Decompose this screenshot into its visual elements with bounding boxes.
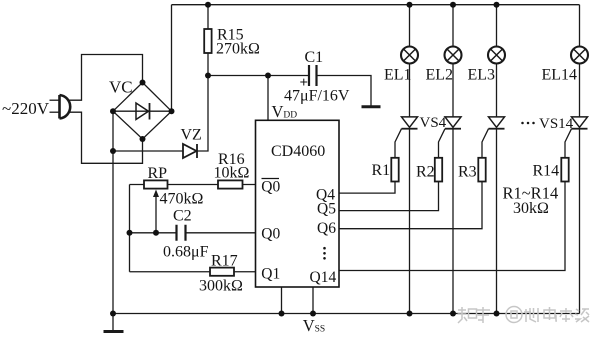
bridge inner diode [136,103,149,120]
svg-text:R2: R2 [416,164,435,181]
junction branch 1 on bottom rail [407,311,413,317]
wire lamp branch 1 [409,5,411,314]
potentiometer RP wiper arrow [155,194,157,233]
thyristor VS14 [565,117,588,158]
svg-text:EL2: EL2 [426,67,454,84]
junction R15 top on rail [205,2,211,8]
wire plug prong lower [50,111,59,113]
svg-text:EL1: EL1 [384,67,412,84]
svg-text:Q0: Q0 [261,226,280,243]
svg-text:0.68μF: 0.68μF [163,244,209,261]
svg-text:C2: C2 [173,208,192,225]
resistor R3 [478,158,485,182]
junction bridge bottom corner [140,136,146,142]
capacitor C2 [177,225,186,241]
wire RC network vertical [129,185,131,272]
svg-text:EL14: EL14 [542,67,578,84]
lamp EL2 [445,47,462,64]
svg-text:Q14: Q14 [310,269,337,286]
resistor R2 [435,158,442,182]
resistor R17 [210,268,234,276]
junction R15 bottom node [205,73,211,79]
svg-text:10kΩ: 10kΩ [214,165,250,182]
ground of C1 [362,105,381,108]
wire Q0 line [130,232,256,234]
svg-text:R1: R1 [372,162,391,179]
wire R15 top lead [207,5,209,29]
svg-text:VDD: VDD [272,102,298,121]
junction VSS lead 1 on bottom rail [279,311,285,317]
junction lamp branch 1 on rail [407,2,413,8]
svg-text:R3: R3 [458,164,477,181]
junction RP wiper on Q0 line [153,230,159,236]
wire plug prong upper [50,99,59,101]
potentiometer RP body [144,180,168,188]
lamp EL1 [401,47,418,64]
svg-text:30kΩ: 30kΩ [513,200,549,217]
wire Q6 to R3 [339,182,482,229]
svg-text:470kΩ: 470kΩ [160,191,204,208]
wire VSS lead 2 [312,287,314,314]
svg-text:R14: R14 [533,163,560,180]
junction branch 3 on bottom rail [494,311,500,317]
svg-text:VS4: VS4 [420,115,447,131]
junction bridge top corner [140,80,146,86]
wire plug lower to bridge bottom [70,112,143,163]
junction VSS lead 2 on bottom rail [310,311,316,317]
wire VDD lead [267,76,269,121]
junction RC network on Q0 line [127,230,133,236]
svg-text:CD4060: CD4060 [271,143,325,160]
svg-text:C1: C1 [305,49,324,66]
svg-text:VC: VC [109,77,133,96]
wire lamp branch 4 [579,5,581,314]
lamp EL3 [488,47,505,64]
capacitor C1 [309,65,317,86]
wire bottom ground rail [113,313,580,315]
resistor R16 [218,180,243,188]
watermark zhihu [458,307,590,324]
wire R15 bottom lead [207,53,209,76]
wire top supply rail [172,4,580,6]
wire plug upper to bridge top [69,55,143,101]
thyristor VS4 [395,117,418,158]
wire C1 line left [208,75,309,77]
wire C1 right to ground [317,76,372,106]
thyristor 3 [482,117,505,158]
junction branch 2 on bottom rail [450,311,456,317]
wire Q0bar line [130,184,256,186]
plug 220V [60,95,71,119]
resistor R1 [391,158,398,182]
bridge rectifier VC diamond [113,83,172,140]
svg-text:270kΩ: 270kΩ [216,41,260,58]
svg-text:VS14: VS14 [539,116,574,132]
svg-text:EL3: EL3 [468,67,496,84]
IC box CD4060 [256,120,340,287]
wire Q14 to R14 [339,182,565,271]
junction VZ line to negative rail [110,148,116,154]
lamp EL14 [571,47,588,64]
thyristor 2 [439,117,462,158]
svg-text:VZ: VZ [181,127,202,144]
wire bridge right corner to top rail [171,5,173,112]
resistor R15 [204,29,211,53]
wire VSS lead 1 [281,287,283,314]
svg-text:Q5: Q5 [317,200,336,217]
wire VZ cathode to R15 bottom node [197,76,208,152]
junction VDD node [265,73,271,79]
svg-text:47μF/16V: 47μF/16V [284,88,350,105]
pin vdots [323,247,326,260]
wire lamp branch 3 [496,5,498,314]
bridge inner line [113,110,172,112]
svg-text:~220V: ~220V [2,99,50,118]
resistor R14 [561,158,568,182]
wire Q5 to R2 [339,182,439,211]
svg-text:R17: R17 [211,253,238,270]
diode VZ [183,144,197,158]
svg-text:VSS: VSS [303,316,326,335]
svg-text:Q1: Q1 [261,266,280,283]
svg-text:Q6: Q6 [317,220,336,237]
wire bridge left corner down to ground rail [112,111,114,313]
svg-text:Q0: Q0 [261,178,280,195]
svg-text:300kΩ: 300kΩ [199,278,243,295]
junction ground on bottom rail [110,311,116,317]
wire Q1 line [130,271,256,273]
junction bridge right corner [169,108,175,114]
wire VZ line [113,150,183,152]
wire lamp branch 2 [452,5,454,314]
wire Q4 to R1 [339,182,395,194]
junction lamp branch 3 on rail [494,2,500,8]
label dots before VS14 [521,122,535,125]
ground main [112,314,114,331]
junction lamp branch 2 on rail [450,2,456,8]
junction bridge left corner [110,108,116,114]
svg-text:RP: RP [148,165,168,182]
